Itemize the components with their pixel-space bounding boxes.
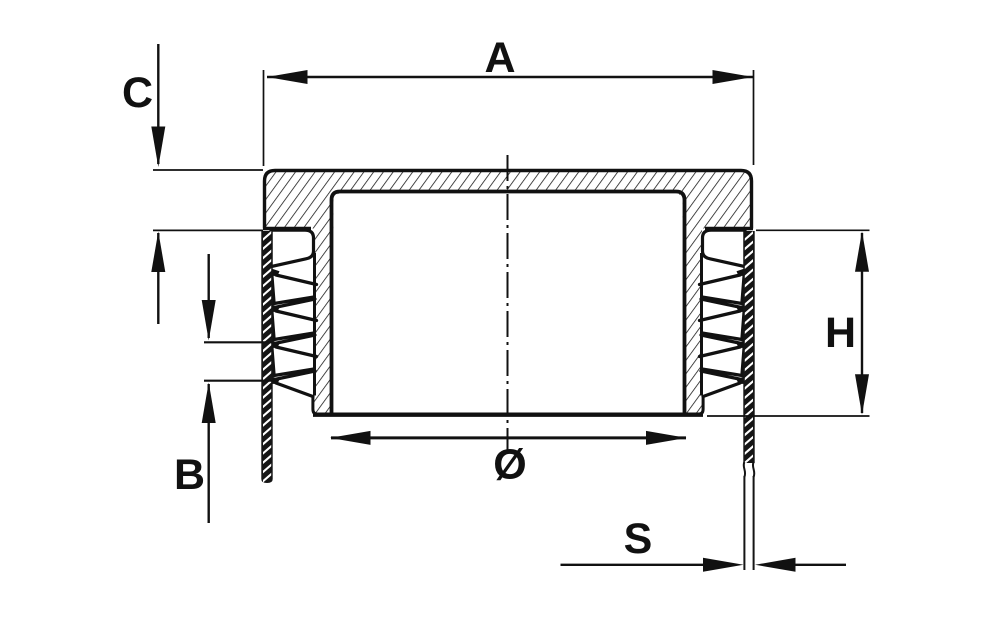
svg-text:Ø: Ø xyxy=(493,441,526,489)
right tube wall lower part xyxy=(744,476,753,570)
dimension B lines xyxy=(207,254,209,523)
cap top slab hatched section xyxy=(263,171,753,229)
dimension B extension lines xyxy=(204,342,274,380)
right tube wall break symbol xyxy=(744,462,755,477)
cap shoulder bottom right xyxy=(705,227,753,231)
fin edges and slits xyxy=(271,275,317,397)
fin edges and slits xyxy=(700,275,746,397)
cap bottom rim edge xyxy=(313,413,703,417)
dimension B arrowheads xyxy=(202,300,216,341)
svg-text:A: A xyxy=(484,34,515,82)
right skirt wall strip hatched xyxy=(685,229,703,415)
vertical centerline (dash-dot) xyxy=(507,155,509,452)
left tube wall (hatched thin wall) xyxy=(261,231,272,483)
cap outer outline top slab xyxy=(265,171,752,229)
svg-text:H: H xyxy=(825,309,856,357)
dimension S arrowheads xyxy=(703,558,744,572)
dimension H extension lines xyxy=(707,230,870,416)
dimension H arrowheads xyxy=(855,231,869,272)
dimension C extension lines xyxy=(153,170,263,230)
skirt foot xyxy=(699,396,703,415)
fin tip blobs xyxy=(737,268,748,384)
svg-text:S: S xyxy=(624,515,653,563)
svg-text:B: B xyxy=(174,451,205,499)
right tube wall upper part (hatched thin wall) xyxy=(743,231,754,463)
skirt foot xyxy=(313,396,317,415)
left skirt wall strip hatched xyxy=(314,229,332,415)
cap inner cavity wall outline xyxy=(332,192,685,415)
fin tip blobs xyxy=(269,268,280,384)
cap shoulder bottom left xyxy=(263,227,311,231)
groove notch 1 xyxy=(703,230,746,266)
dimension dia arrowheads xyxy=(330,431,371,445)
dimension A line xyxy=(267,76,753,78)
dimension dia line xyxy=(331,436,686,439)
dimension C arrowheads xyxy=(151,127,165,168)
groove root line xyxy=(313,253,316,396)
groove notch 1 xyxy=(271,230,314,266)
svg-text:C: C xyxy=(122,69,153,117)
groove root line xyxy=(700,253,703,396)
right skirt fins xyxy=(699,230,748,414)
dimension A extension lines xyxy=(264,70,754,166)
dimension C lines xyxy=(157,44,159,324)
dimension A arrowheads xyxy=(267,70,308,84)
dimension H line xyxy=(861,233,863,413)
dimension S lines xyxy=(561,564,847,566)
